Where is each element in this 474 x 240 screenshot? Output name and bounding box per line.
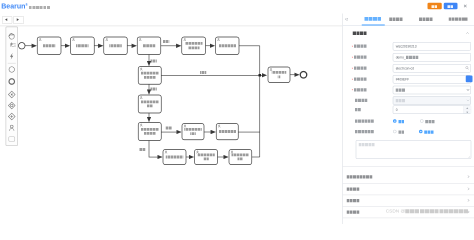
wire start to T1 [25, 45, 36, 48]
label agree L1 [163, 40, 169, 43]
lasso tool [10, 43, 15, 47]
label agree L7 [139, 148, 145, 151]
wire C3 to trunk [238, 131, 260, 134]
separator [8, 62, 16, 65]
label agree L4 [151, 88, 157, 91]
junction blob [259, 74, 262, 77]
task B1 [138, 67, 161, 85]
connect tool (lightning) [10, 53, 13, 59]
hand tool [9, 33, 14, 39]
exclusive gateway icon [8, 91, 15, 98]
start event icon [9, 67, 15, 73]
wire T3 to T4 [127, 45, 136, 48]
end event icon [9, 79, 15, 85]
task B3 [138, 123, 161, 141]
wire D2 to D3 [218, 156, 229, 159]
task archive [268, 67, 290, 83]
task T6 [216, 37, 240, 55]
user task icon [10, 125, 15, 131]
wire D1 to D2 [186, 156, 194, 159]
task C3 [216, 124, 238, 140]
label agree L6 [166, 127, 172, 130]
task T2 [71, 37, 95, 55]
save button (orange) [428, 3, 442, 10]
wire B1 to archive [161, 74, 266, 77]
wire C2 to C3 [204, 131, 215, 134]
wire T1 to T2 [61, 45, 70, 48]
wire T4 to T5 [161, 45, 181, 48]
task C2 [182, 124, 204, 140]
label agree L3 [200, 71, 206, 74]
task T5 [182, 37, 206, 55]
wire T4 down to B1 [148, 55, 151, 66]
task D2 [195, 150, 218, 165]
wire B3 down to D1 [149, 141, 162, 158]
task T1 [37, 37, 61, 55]
wire B3 to C2 [161, 131, 181, 134]
wire D3 to trunk [252, 156, 260, 159]
wire B1 to B2 [148, 84, 151, 94]
wire T5 to T6 [206, 45, 215, 48]
wire T6 to trunk [239, 45, 260, 48]
task T3 [104, 37, 128, 55]
label agree L2 [151, 60, 157, 63]
end event [300, 72, 307, 79]
task T4 [137, 37, 161, 55]
task D1 [163, 150, 186, 165]
task D3 [229, 150, 252, 165]
wire B2 to B3 [148, 113, 151, 122]
wire archive to end [290, 74, 299, 77]
wire T2 to T3 [94, 45, 103, 48]
task B2 [138, 95, 161, 113]
close x [463, 4, 467, 8]
start event [19, 43, 26, 50]
trunk vertical [259, 46, 262, 157]
inclusive gateway icon [8, 102, 15, 109]
task rect icon [9, 137, 15, 142]
parallel gateway icon [8, 113, 15, 120]
publish button (blue) [444, 3, 458, 10]
